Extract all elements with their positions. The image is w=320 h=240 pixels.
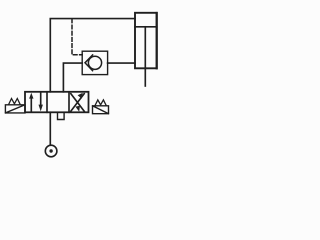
check valve ball (88, 56, 101, 69)
cylinder barrel (135, 13, 157, 69)
spring (left, zigzag above solenoid) (9, 99, 21, 105)
check valve V1 box (82, 51, 107, 74)
wire: P line from valve A-port up and across to cylinder cap end (50, 19, 135, 92)
X arrow head (top right) (78, 93, 83, 99)
X cell diagonal 1 (to top right) (71, 94, 84, 112)
pilot line (dashed) from supply line to check valve (72, 19, 82, 55)
wire: valve P-port down to pressure source (49, 112, 51, 145)
wire: valve B-port up to check valve inlet (63, 63, 82, 92)
piston rod (144, 27, 146, 86)
check valve seat (85, 55, 93, 71)
X arrow head (bottom right) (75, 106, 80, 112)
solenoid S1 (left) (5, 105, 25, 113)
junction: rod through cylinder bottom (144, 67, 146, 69)
tank T (open-top reservoir under valve) (58, 114, 65, 120)
down-arrow head (39, 105, 43, 112)
up-arrow head (29, 93, 33, 99)
left cell up-arrow (30, 98, 32, 111)
valve body (3-position directional valve) (25, 92, 89, 113)
X cell diagonal 2 (to bottom right) (71, 94, 84, 112)
solenoid S2 (right) (93, 106, 109, 114)
cylinder right wall (thick) (156, 13, 158, 68)
valve position divider 1 (46, 92, 48, 113)
wire: check valve outlet to cylinder rod end (108, 62, 135, 64)
piston (135, 26, 157, 28)
pressure source dot (49, 149, 52, 152)
pressure source circle (45, 145, 57, 157)
left cell down-arrow (40, 92, 42, 105)
spring (right, zigzag above solenoid) (95, 100, 106, 106)
valve position divider 2 (68, 92, 70, 113)
